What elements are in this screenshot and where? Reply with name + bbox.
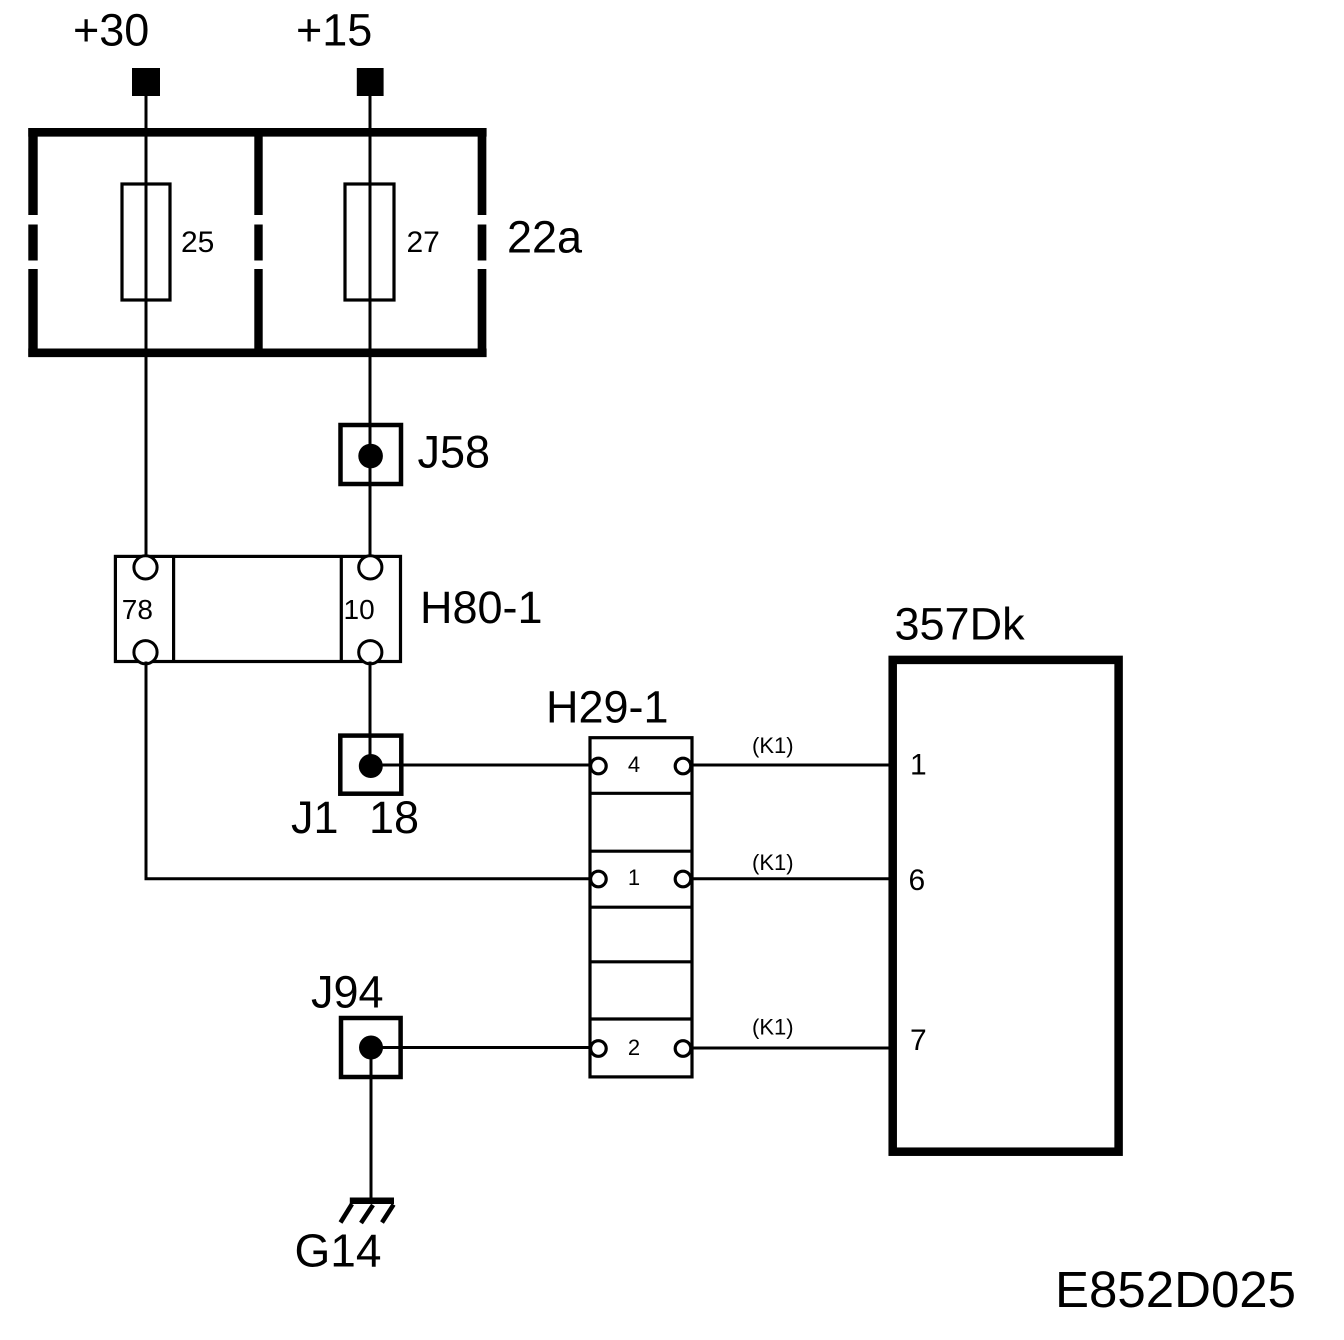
svg-text:10: 10: [344, 594, 375, 625]
terminal square +30: [132, 68, 160, 96]
fuse 27: [345, 184, 394, 300]
svg-text:6: 6: [909, 864, 926, 897]
wire pin 78 run to H29-1 pin 1: [145, 877, 591, 880]
wire H29-1 pin 1 to 357Dk pin 6: [692, 877, 892, 880]
junction J94: [341, 1018, 401, 1077]
svg-text:18: 18: [369, 792, 419, 843]
svg-text:H29-1: H29-1: [546, 682, 669, 733]
svg-text:78: 78: [122, 594, 153, 625]
wire from +15 terminal through fuse 27 to junction J58: [369, 95, 372, 558]
svg-text:22a: 22a: [507, 211, 583, 262]
fuse box 22a (dashed border): [28, 128, 486, 357]
wire from +30 terminal through fuse 25 to H80-1 pin 78: [145, 95, 148, 558]
svg-text:7: 7: [910, 1024, 927, 1057]
svg-text:J58: J58: [418, 427, 491, 478]
junction J1: [340, 736, 401, 794]
wire H80-1 pin 78 down: [145, 662, 148, 879]
svg-text:4: 4: [628, 752, 640, 777]
svg-text:27: 27: [407, 226, 440, 259]
svg-text:+15: +15: [296, 5, 372, 56]
svg-text:(K1): (K1): [752, 733, 794, 758]
svg-text:E852D025: E852D025: [1055, 1261, 1296, 1318]
connector H29-1: [590, 738, 692, 1077]
svg-text:25: 25: [181, 226, 214, 259]
svg-text:+30: +30: [73, 5, 149, 56]
svg-text:(K1): (K1): [752, 850, 794, 875]
connector H80-1: [115, 556, 400, 664]
svg-text:J94: J94: [311, 967, 384, 1018]
svg-text:1: 1: [910, 749, 927, 782]
wire J1 to H29-1 pin 4: [370, 764, 590, 767]
ground G14: [341, 1201, 395, 1223]
svg-text:J1: J1: [291, 792, 339, 843]
wire H80-1 pin 10 to junction J1: [369, 662, 372, 767]
svg-text:1: 1: [628, 865, 640, 890]
svg-text:2: 2: [628, 1035, 640, 1060]
svg-text:H80-1: H80-1: [420, 582, 543, 633]
svg-text:357Dk: 357Dk: [895, 599, 1026, 650]
wire H29-1 pin 2 to 357Dk pin 7: [692, 1047, 892, 1050]
junction J58: [341, 425, 402, 484]
wire H29-1 pin 4 to 357Dk pin 1: [692, 764, 892, 767]
control unit 357Dk: [893, 660, 1119, 1152]
wire J94 to ground G14: [370, 1059, 373, 1198]
svg-text:(K1): (K1): [752, 1015, 794, 1040]
svg-text:G14: G14: [295, 1225, 382, 1277]
wire J94 to H29-1 pin 2: [371, 1046, 590, 1049]
fuse 25: [122, 184, 170, 300]
terminal square +15: [357, 68, 384, 96]
